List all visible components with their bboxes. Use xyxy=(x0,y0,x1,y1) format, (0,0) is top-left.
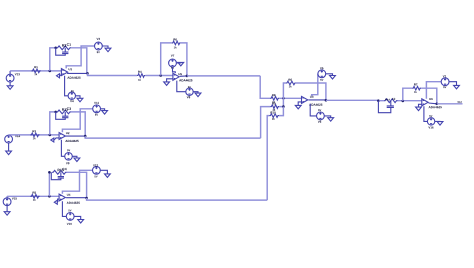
wire xyxy=(298,102,301,106)
wire xyxy=(66,197,87,199)
node output U1 xyxy=(86,72,89,75)
resistor R9 xyxy=(270,102,279,110)
wire xyxy=(260,76,270,98)
voltage source V11 xyxy=(93,102,101,116)
wire xyxy=(267,116,269,201)
ground xyxy=(178,62,184,66)
wire V+ U2 xyxy=(62,109,92,132)
node feedback xyxy=(54,47,57,50)
wire xyxy=(71,112,85,136)
wire xyxy=(71,48,87,74)
wire V- U2 xyxy=(61,140,64,157)
voltage source V8 xyxy=(186,86,193,98)
node inverting input U5 xyxy=(159,74,162,77)
node feedback U4 xyxy=(48,171,51,174)
wire feedback U6 xyxy=(403,88,412,101)
wire xyxy=(181,43,187,76)
wire xyxy=(279,107,283,116)
ground xyxy=(54,199,59,204)
wire feedback U3 xyxy=(283,83,286,98)
node output U5 xyxy=(186,75,189,78)
wire V+ U1 xyxy=(66,46,94,68)
voltage source V12 xyxy=(93,164,101,177)
wire V+ U4 xyxy=(62,170,92,193)
wire V- U3 xyxy=(310,104,316,116)
node output U6 xyxy=(436,103,439,106)
wire feedback U5 xyxy=(161,43,172,76)
op-amp U1 xyxy=(61,68,80,79)
node feedback U2 xyxy=(54,111,57,114)
wire xyxy=(102,46,108,48)
resistor R13 / capacitor C4 xyxy=(51,168,66,180)
wire xyxy=(324,116,330,118)
wire xyxy=(74,216,81,219)
ground xyxy=(4,212,10,216)
ground xyxy=(437,122,443,126)
wire xyxy=(7,195,59,197)
ground xyxy=(74,158,80,162)
ground xyxy=(51,138,59,142)
wire V+ U3 xyxy=(312,74,318,96)
op-amp U3 xyxy=(302,96,323,106)
ground xyxy=(295,105,301,109)
wire V+ U6 xyxy=(426,82,441,99)
wire xyxy=(326,74,333,76)
wire xyxy=(50,112,56,135)
wire xyxy=(48,172,50,196)
wire V+ U5 xyxy=(173,67,176,73)
wire xyxy=(296,83,326,100)
wire xyxy=(167,79,173,82)
node output U2 xyxy=(84,135,87,138)
wire xyxy=(180,75,187,77)
voltage source V5 xyxy=(318,67,326,81)
wire xyxy=(279,98,283,106)
node RC input xyxy=(377,99,380,102)
wire xyxy=(67,72,87,74)
wire xyxy=(85,136,260,138)
node feedback U6 xyxy=(402,100,405,103)
resistor R3 xyxy=(30,130,39,139)
wire xyxy=(193,92,198,93)
ground xyxy=(102,111,108,115)
wire xyxy=(9,134,60,136)
wire xyxy=(10,70,61,72)
wire xyxy=(88,73,137,75)
resistor R5 xyxy=(30,192,39,201)
resistor R7 xyxy=(412,84,421,93)
voltage source V15 xyxy=(3,196,17,211)
ground xyxy=(195,93,201,97)
wire xyxy=(187,75,260,77)
voltage source V6 xyxy=(317,109,325,122)
wire V- U1 xyxy=(65,76,69,96)
node output U3 xyxy=(325,99,328,102)
wire xyxy=(326,99,379,101)
voltage source V3 xyxy=(95,38,103,53)
voltage source V1 xyxy=(441,75,449,88)
wire V- U6 xyxy=(424,106,428,121)
node inverting input U1 xyxy=(49,70,52,73)
wire xyxy=(50,48,56,71)
ground xyxy=(328,118,334,122)
node inverting input U2 xyxy=(49,134,52,137)
resistor R1 xyxy=(32,66,41,75)
voltage source V4 xyxy=(68,90,75,102)
ground xyxy=(57,74,62,78)
op-amp U2 xyxy=(59,132,79,142)
node summing A xyxy=(282,97,285,100)
wire xyxy=(421,88,437,104)
ground xyxy=(105,48,111,52)
wire V- U5 xyxy=(177,81,186,92)
wire V- U4 xyxy=(62,201,66,216)
voltage source V10 xyxy=(66,210,74,225)
ground xyxy=(7,86,13,90)
wire xyxy=(279,97,301,99)
wire xyxy=(429,102,437,105)
wire xyxy=(435,120,440,122)
label out xyxy=(458,101,462,103)
wire xyxy=(379,100,422,102)
voltage source V7 xyxy=(169,55,177,69)
resistor R11 / capacitor C3 xyxy=(56,107,71,119)
ground xyxy=(77,98,83,102)
ground xyxy=(105,174,111,178)
ground xyxy=(78,220,84,224)
resistor R4 xyxy=(137,71,145,81)
wire xyxy=(65,135,85,137)
wire xyxy=(76,96,81,99)
op-amp U5 xyxy=(173,73,193,81)
ground xyxy=(164,82,170,86)
wire xyxy=(176,61,180,64)
resistor R8 xyxy=(270,94,279,103)
wire xyxy=(419,104,422,107)
ground xyxy=(416,107,422,111)
op-amp U6 xyxy=(422,98,442,108)
wire xyxy=(449,82,457,86)
wire xyxy=(87,198,268,200)
resistor R2 / capacitor C1 xyxy=(56,43,71,55)
voltage source V14 xyxy=(5,135,20,151)
voltage source V2 xyxy=(427,115,434,128)
resistor R10 xyxy=(269,111,279,119)
voltage source V13 xyxy=(6,71,20,86)
resistor R14 / capacitor C2 xyxy=(378,98,397,113)
wire xyxy=(309,99,326,101)
wire xyxy=(100,170,107,174)
wire xyxy=(101,109,105,111)
ground xyxy=(330,76,336,80)
ground xyxy=(6,151,12,155)
wire xyxy=(72,156,77,158)
wire output xyxy=(437,103,463,105)
node output U4 xyxy=(85,197,88,200)
wire xyxy=(145,75,173,77)
wire xyxy=(261,107,271,139)
resistor R6 xyxy=(172,38,181,48)
op-amp U4 xyxy=(59,194,80,204)
node summing B xyxy=(282,105,285,108)
wire xyxy=(67,172,87,198)
voltage source V9 xyxy=(65,149,73,164)
ground xyxy=(454,85,460,89)
resistor R6b xyxy=(286,79,296,88)
node inverting input U4 xyxy=(48,195,51,198)
